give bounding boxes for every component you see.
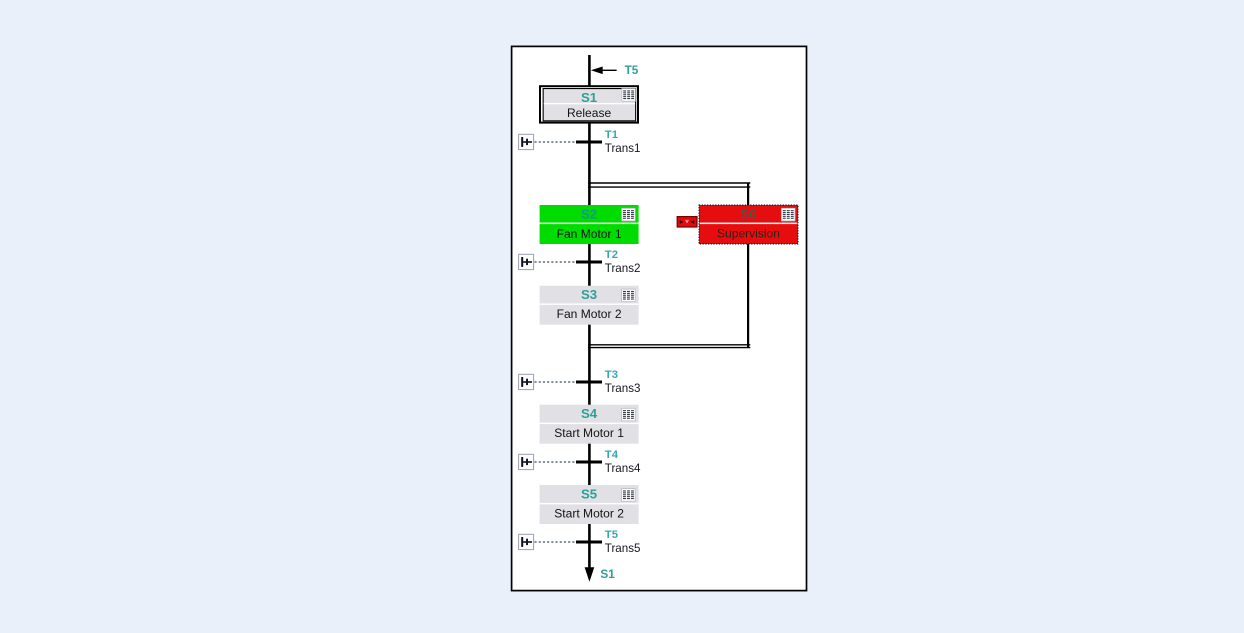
svg-text:Trans3: Trans3 bbox=[605, 382, 641, 395]
svg-text:T1: T1 bbox=[605, 129, 618, 141]
svg-text:S2: S2 bbox=[581, 206, 597, 221]
svg-text:T5: T5 bbox=[605, 529, 618, 541]
svg-text:S6: S6 bbox=[740, 206, 756, 221]
svg-text:S1: S1 bbox=[581, 90, 597, 105]
svg-text:S4: S4 bbox=[581, 406, 598, 421]
svg-text:Fan Motor 1: Fan Motor 1 bbox=[557, 227, 622, 241]
svg-text:T2: T2 bbox=[605, 249, 618, 261]
svg-text:Trans2: Trans2 bbox=[605, 262, 641, 275]
svg-text:Trans1: Trans1 bbox=[605, 142, 641, 155]
svg-text:Trans4: Trans4 bbox=[605, 462, 641, 475]
svg-text:Release: Release bbox=[567, 106, 611, 120]
svg-text:Fan Motor 2: Fan Motor 2 bbox=[557, 307, 622, 321]
svg-text:Supervision: Supervision bbox=[717, 226, 780, 240]
svg-text:S3: S3 bbox=[581, 287, 597, 302]
svg-text:Trans5: Trans5 bbox=[605, 542, 641, 555]
svg-text:T5: T5 bbox=[625, 63, 639, 77]
svg-text:Start Motor 2: Start Motor 2 bbox=[554, 506, 624, 520]
svg-text:Start Motor 1: Start Motor 1 bbox=[554, 426, 624, 440]
svg-text:T3: T3 bbox=[605, 369, 618, 381]
svg-text:S5: S5 bbox=[581, 486, 597, 501]
svg-text:S1: S1 bbox=[600, 567, 615, 581]
svg-text:T4: T4 bbox=[605, 449, 619, 461]
